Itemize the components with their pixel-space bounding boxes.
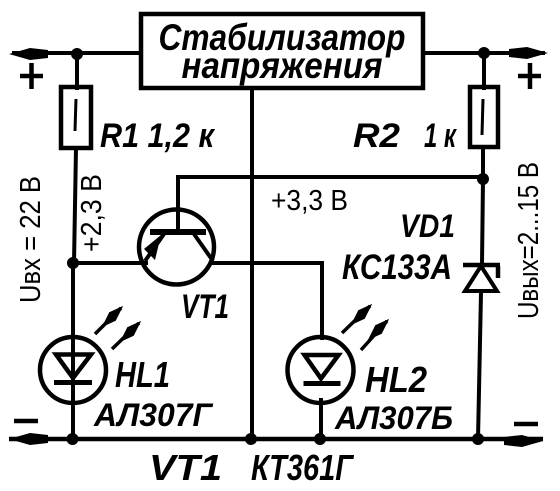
wire right rail mid [482, 147, 483, 264]
label voltage +2,3 V [76, 174, 108, 252]
label voltage +3,3 V [271, 185, 348, 217]
svg-text:Uвых=2...15 В: Uвых=2...15 В [513, 162, 545, 319]
wire top output [423, 51, 545, 55]
minus polarity right [514, 422, 538, 427]
plus polarity input [20, 63, 43, 89]
LED HL2 [288, 337, 354, 403]
svg-text:АЛ307Б: АЛ307Б [334, 400, 453, 436]
svg-text:VT1: VT1 [181, 288, 229, 326]
junction bottom common [245, 433, 257, 445]
wire top input [12, 51, 142, 55]
LED HL1 [40, 337, 106, 403]
svg-text:КС133А: КС133А [342, 248, 452, 287]
minus polarity left [14, 419, 38, 424]
wire base net [178, 177, 483, 233]
svg-text:КТ361Г: КТ361Г [251, 447, 355, 488]
svg-text:1 к: 1 к [424, 117, 457, 155]
HL1 light arrow 2 [112, 323, 139, 349]
wire left rail to HL1 [71, 263, 75, 439]
voltage stabilizer block U1 [141, 14, 423, 88]
junction output node [478, 47, 490, 59]
junction bottom left [67, 433, 79, 445]
svg-text:+2,3 В: +2,3 В [76, 174, 108, 252]
svg-text:Uвх = 22 В: Uвх = 22 В [15, 176, 47, 303]
wire bottom rail [9, 437, 543, 442]
label output voltage Uvyx [513, 162, 545, 319]
svg-text:R2: R2 [353, 117, 400, 155]
input terminal arrow [9, 48, 48, 60]
junction zener node [477, 173, 489, 185]
label HL1 [115, 354, 170, 395]
label HL2 [365, 359, 427, 400]
HL1 light arrow 1 [95, 308, 121, 334]
svg-text:HL1: HL1 [115, 354, 170, 395]
label HL1 type [93, 397, 213, 433]
wire right rail lower [478, 293, 481, 439]
svg-text:напряжения: напряжения [182, 45, 383, 86]
junction bottom HL2 [314, 433, 326, 445]
label R1 value [100, 117, 216, 155]
HL2 light arrow 2 [361, 321, 387, 350]
junction input node [71, 48, 83, 60]
label input voltage Uvx [15, 176, 47, 303]
wire left rail upper [75, 53, 79, 90]
caption VT1 type [149, 447, 355, 488]
wire collector [209, 263, 322, 340]
zener diode VD1 [463, 265, 500, 291]
svg-text:VD1: VD1 [400, 208, 455, 244]
bottom left terminal arrow [9, 433, 48, 445]
wire right rail upper [482, 53, 486, 90]
label VT1 [181, 288, 229, 326]
resistor R2 [470, 87, 498, 147]
wire left rail mid [74, 148, 76, 263]
transistor Q1 VT1 [139, 210, 214, 285]
junction bottom right [472, 433, 484, 445]
wire emitter [73, 261, 148, 265]
junction emitter node [67, 257, 79, 269]
svg-text:АЛ307Г: АЛ307Г [93, 397, 213, 433]
output terminal arrow [509, 47, 548, 59]
label VD1 type [342, 248, 452, 287]
wire HL2 cathode [319, 398, 323, 439]
bottom right terminal arrow [504, 435, 543, 447]
plus polarity output [518, 63, 541, 89]
label HL2 type [334, 400, 453, 436]
HL2 light arrow 1 [342, 306, 370, 333]
svg-text:HL2: HL2 [365, 359, 427, 400]
label R2 value [353, 117, 457, 155]
resistor R1 [61, 87, 91, 148]
label VD1 [400, 208, 455, 244]
svg-text:VT1: VT1 [149, 447, 222, 488]
svg-text:R1 1,2 к: R1 1,2 к [100, 117, 216, 155]
svg-text:+3,3 В: +3,3 В [271, 185, 348, 217]
wire stabilizer common lead [250, 88, 254, 439]
